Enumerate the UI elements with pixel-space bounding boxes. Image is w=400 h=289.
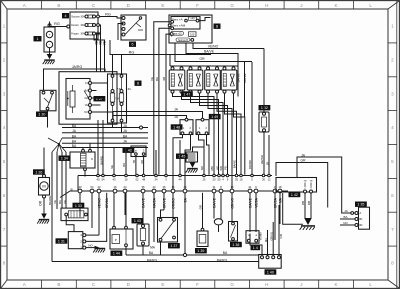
- wire JA feed 149: [113, 112, 203, 119]
- wire 137 down: [160, 242, 162, 255]
- comp 145: [186, 152, 198, 162]
- wire riser 282 to ground: [283, 193, 303, 224]
- svg-text:6: 6: [391, 193, 394, 198]
- svg-text:BA: BA: [122, 163, 126, 167]
- box +a +a: [276, 178, 317, 194]
- svg-text:VE: VE: [63, 200, 67, 204]
- wire ignition pin2 drop: [118, 24, 124, 41]
- svg-text:NO: NO: [88, 243, 93, 247]
- svg-text:BA/RG: BA/RG: [217, 258, 228, 262]
- tag conn 134: [59, 156, 71, 161]
- svg-text:54: 54: [102, 177, 105, 181]
- svg-text:VE: VE: [110, 165, 114, 169]
- tag box 138: [230, 242, 242, 247]
- svg-text:30A: 30A: [81, 33, 86, 36]
- wires conn140 risers: [250, 234, 262, 251]
- ignition switch box: [121, 15, 146, 40]
- svg-text:16: 16: [125, 177, 128, 181]
- svg-text:BA/VE: BA/VE: [233, 160, 237, 168]
- svg-text:BA/VE: BA/VE: [248, 197, 252, 208]
- svg-text:100: 100: [190, 32, 195, 36]
- svg-text:OR/RO: OR/RO: [171, 198, 175, 209]
- svg-text:L: L: [369, 3, 372, 8]
- svg-text:Vers +AM: Vers +AM: [172, 24, 186, 28]
- wire left drop 4: [65, 152, 67, 208]
- svg-text:4: 4: [65, 14, 67, 18]
- svg-text:1 37: 1 37: [170, 244, 177, 248]
- wire fuse aux down: [94, 35, 105, 72]
- svg-text:RG: RG: [129, 50, 135, 54]
- svg-text:1 42: 1 42: [291, 193, 298, 197]
- wire comp133 to 131: [66, 216, 74, 232]
- wire left drop 1b: [51, 152, 53, 262]
- tag connector 140: [265, 269, 277, 274]
- wire long drop x159: [159, 28, 171, 174]
- wire JA/RG top: [44, 69, 106, 90]
- battery B1: [44, 24, 55, 52]
- wire lamp feed bus: [170, 65, 238, 67]
- svg-text:VE/MA: VE/MA: [258, 232, 262, 241]
- wire horizontal BA y147.5: [62, 147, 148, 149]
- wires fusepair bottom stubs: [112, 122, 114, 128]
- wire 145 up: [193, 147, 205, 152]
- svg-text:VE/NO: VE/NO: [208, 45, 219, 49]
- junction circle: [140, 126, 143, 129]
- svg-text:44: 44: [184, 185, 187, 189]
- svg-text:Demarr: Demarr: [71, 24, 79, 27]
- wire motor up: [43, 148, 45, 175]
- svg-text:Serrure B: Serrure B: [178, 39, 188, 42]
- svg-text:8: 8: [216, 25, 218, 29]
- motor 126: [39, 175, 50, 199]
- star junction: [48, 138, 66, 152]
- box 139: [197, 228, 208, 246]
- svg-text:G: G: [230, 3, 234, 8]
- svg-text:50: 50: [218, 177, 221, 181]
- wire extra drop 269: [268, 135, 270, 175]
- svg-text:3: 3: [391, 91, 394, 96]
- svg-text:8: 8: [3, 261, 6, 266]
- wires lamp fan staircase: [173, 93, 245, 190]
- svg-text:20: 20: [213, 177, 216, 181]
- svg-text:DB: DB: [301, 201, 305, 205]
- svg-text:7B: 7B: [132, 160, 136, 164]
- outer box relay127: [59, 72, 117, 125]
- lamp L2: [187, 67, 203, 93]
- svg-text:44: 44: [179, 177, 182, 181]
- svg-text:VE: VE: [103, 41, 107, 45]
- svg-text:6: 6: [132, 43, 134, 47]
- svg-text:DB: DB: [307, 201, 311, 205]
- svg-text:35: 35: [235, 177, 238, 181]
- relay box 148: [180, 118, 193, 134]
- svg-text:BA: BA: [155, 77, 159, 81]
- svg-text:7.5A: 7.5A: [126, 88, 131, 91]
- svg-text:B: B: [57, 282, 60, 287]
- svg-text:PE: PE: [224, 166, 228, 170]
- svg-text:30A: 30A: [81, 24, 86, 27]
- tag motor 126: [33, 169, 45, 174]
- fuse pair box: [108, 74, 127, 123]
- svg-text:B: B: [57, 3, 60, 8]
- wire fuse8 tops: [112, 55, 114, 75]
- svg-text:19: 19: [240, 177, 243, 181]
- conn 134: [70, 149, 95, 170]
- wires lamp top stubs: [173, 65, 234, 68]
- wire 148 down-left: [173, 135, 183, 190]
- wire BA to B1: [340, 218, 356, 220]
- svg-text:OR: OR: [199, 205, 203, 209]
- svg-text:1 47: 1 47: [183, 92, 190, 96]
- wire NO to B2: [340, 224, 356, 226]
- wire BA/RG bottom: [52, 261, 259, 263]
- tag box 14x: [251, 245, 261, 250]
- ellipse lamp: [214, 219, 222, 225]
- svg-text:F: F: [196, 3, 199, 8]
- svg-text:7.5A: 7.5A: [114, 97, 120, 101]
- wire drop x180 from lamps: [179, 140, 181, 175]
- tag relay 148: [171, 124, 183, 129]
- wire 141 to BA: [125, 247, 127, 255]
- svg-text:VE/BA: VE/BA: [254, 197, 258, 208]
- svg-text:5: 5: [3, 159, 6, 164]
- svg-text:1 26: 1 26: [35, 170, 42, 174]
- comp 132 resistor: [259, 112, 269, 132]
- svg-text:1: 1: [37, 37, 39, 41]
- svg-text:6: 6: [3, 193, 6, 198]
- svg-text:30A: 30A: [81, 16, 86, 19]
- tag bus 142 end: [289, 192, 301, 197]
- svg-text:2: 2: [391, 57, 394, 62]
- svg-text:1 40: 1 40: [267, 270, 274, 274]
- svg-text:Secours: Secours: [71, 16, 80, 19]
- wire 142 drops: [135, 155, 137, 174]
- ground comp145: [186, 163, 198, 173]
- tag box 139: [195, 248, 207, 253]
- svg-text:OR/NO: OR/NO: [248, 159, 252, 169]
- svg-text:L: L: [369, 282, 372, 287]
- tag battery 1: [34, 36, 42, 41]
- tag relay 127: [94, 96, 106, 101]
- svg-text:1 45: 1 45: [178, 155, 185, 159]
- svg-text:1 35: 1 35: [357, 203, 364, 207]
- ground bottom left: [93, 249, 105, 253]
- box 138: [229, 222, 238, 242]
- wire 134 tops: [82, 148, 84, 150]
- svg-text:1 44: 1 44: [113, 252, 120, 256]
- svg-text:BA: BA: [343, 215, 347, 219]
- svg-text:OR/VE: OR/VE: [243, 74, 247, 83]
- svg-text:D: D: [91, 157, 93, 161]
- wire 143 down: [142, 245, 144, 255]
- svg-text:GR/VG: GR/VG: [230, 198, 234, 209]
- wire pin3 link: [86, 234, 99, 236]
- svg-text:GR/VG: GR/VG: [270, 232, 274, 241]
- svg-text:F: F: [196, 282, 199, 287]
- svg-text:BA/RG: BA/RG: [147, 258, 158, 262]
- wire 127 pins right: [92, 82, 109, 84]
- tag comp 132: [259, 105, 271, 110]
- wire left drop 3: [61, 152, 63, 208]
- svg-text:7: 7: [391, 227, 394, 232]
- svg-text:JR: JR: [265, 162, 269, 165]
- svg-text:30: 30: [262, 177, 265, 181]
- svg-text:1 34: 1 34: [61, 157, 68, 161]
- svg-text:1 39: 1 39: [197, 249, 204, 253]
- tag connector 8: [214, 24, 221, 29]
- box 141: [110, 226, 133, 249]
- svg-text:40: 40: [79, 185, 82, 189]
- svg-text:NO: NO: [84, 111, 88, 114]
- comp 133 connector: [61, 208, 88, 221]
- lamp L3: [205, 67, 221, 93]
- svg-text:2: 2: [3, 57, 6, 62]
- svg-text:GR/BA: GR/BA: [273, 197, 277, 208]
- wire VE/NO out: [193, 43, 264, 48]
- tag fusebox 8: [135, 81, 142, 86]
- lamp L4: [221, 67, 237, 93]
- svg-text:1: 1: [3, 24, 6, 29]
- wire fuse row2 down: [99, 25, 100, 72]
- svg-text:26: 26: [203, 177, 206, 181]
- svg-text:H: H: [265, 282, 268, 287]
- svg-text:J: J: [300, 282, 302, 287]
- tag conn 142: [123, 148, 135, 153]
- svg-text:BA: BA: [58, 200, 62, 204]
- svg-text:OR: OR: [39, 200, 43, 205]
- wire 132 top feed: [263, 49, 265, 106]
- svg-text:MA: MA: [278, 197, 282, 203]
- wire fuse row3 down: [97, 34, 100, 72]
- svg-text:16: 16: [172, 185, 175, 189]
- svg-text:1 33: 1 33: [75, 204, 82, 208]
- tag comp 135: [355, 202, 367, 207]
- comp 135: [355, 207, 370, 229]
- wire horizontal BA y127.5: [62, 127, 148, 129]
- wire battery bottom to ground: [49, 48, 51, 54]
- svg-text:7: 7: [3, 227, 6, 232]
- wire 149 down-left: [199, 135, 205, 175]
- connector box relays: [168, 15, 212, 43]
- bus upper: [78, 174, 272, 191]
- svg-text:VE: VE: [53, 200, 57, 204]
- wire left drop 2: [56, 152, 58, 209]
- svg-text:40: 40: [97, 177, 100, 181]
- svg-text:4: 4: [3, 125, 6, 130]
- svg-text:VE/NO: VE/NO: [97, 198, 101, 209]
- relay 127: [66, 79, 92, 120]
- svg-text:JA/RG: JA/RG: [72, 65, 83, 69]
- wire lamp feed left end: [169, 55, 171, 67]
- wire OR out: [175, 43, 252, 61]
- wire long drop x153: [154, 22, 171, 175]
- wire NO to ground: [86, 247, 95, 249]
- svg-text:43: 43: [113, 177, 116, 181]
- wire battery to fuse box RG: [49, 22, 51, 24]
- svg-text:MA/BA: MA/BA: [152, 197, 156, 208]
- wires lower bus drops: [80, 193, 282, 255]
- tag comp 133: [73, 203, 85, 208]
- fuse box F4 (3x 30A): [67, 12, 100, 39]
- box 137: [158, 218, 178, 243]
- relay box 149: [196, 118, 209, 134]
- tag relay 149: [209, 114, 221, 119]
- wire motor down to ground: [43, 198, 45, 214]
- svg-text:JA: JA: [344, 209, 348, 213]
- ground motor: [37, 214, 49, 224]
- svg-text:1: 1: [391, 24, 394, 29]
- tag comp 131: [56, 238, 68, 243]
- svg-text:8: 8: [137, 82, 139, 86]
- svg-text:BA/VE: BA/VE: [141, 197, 145, 208]
- connector left pins: [171, 20, 174, 23]
- wire 130 down: [47, 110, 49, 127]
- svg-text:52: 52: [136, 177, 139, 181]
- svg-text:E: E: [161, 3, 164, 8]
- svg-text:M: M: [42, 184, 45, 189]
- svg-text:9D: 9D: [140, 160, 144, 164]
- wires DB drops: [304, 193, 306, 218]
- svg-text:35: 35: [142, 185, 145, 189]
- svg-text:18: 18: [279, 185, 282, 189]
- svg-text:OR: OR: [199, 57, 205, 61]
- wire fuse row1 to ignition: [99, 17, 122, 19]
- comp 131: [68, 232, 86, 250]
- svg-text:+AV: +AV: [190, 18, 195, 21]
- wire BA/VE out: [186, 43, 238, 96]
- lamp L1: [169, 67, 185, 93]
- svg-text:BA/RG: BA/RG: [99, 156, 103, 165]
- svg-text:45: 45: [163, 185, 166, 189]
- wire GR right: [276, 163, 328, 208]
- svg-text:16: 16: [114, 185, 117, 189]
- junction BA: [183, 253, 186, 256]
- svg-text:GR/VE: GR/VE: [162, 197, 166, 208]
- svg-text:21: 21: [249, 185, 252, 189]
- svg-text:12: 12: [268, 177, 271, 181]
- wire long drop x166: [166, 34, 170, 175]
- conn 142: [131, 146, 146, 157]
- svg-text:WR: WR: [219, 166, 223, 171]
- svg-text:+: +: [48, 33, 50, 37]
- arrow NO: [95, 246, 100, 250]
- connector 140: [259, 250, 282, 268]
- wire pin2 link: [86, 193, 107, 242]
- wire fan extra OR/VE: [244, 62, 246, 118]
- svg-text:54: 54: [91, 185, 94, 189]
- wire JA right: [297, 157, 356, 213]
- wire ellipse down: [218, 225, 220, 232]
- svg-text:RG: RG: [105, 13, 111, 17]
- tag ignition 6: [129, 42, 136, 47]
- wire 132 up: [263, 105, 265, 112]
- svg-text:J: J: [300, 3, 302, 8]
- svg-text:5: 5: [391, 159, 394, 164]
- svg-text:34: 34: [155, 177, 158, 181]
- wire horizontal JA y132.8: [62, 132, 148, 134]
- svg-text:4: 4: [391, 125, 394, 130]
- svg-text:1 38: 1 38: [232, 243, 239, 247]
- svg-text:BA/VE: BA/VE: [237, 74, 241, 83]
- wire ignition feed RG long: [110, 40, 211, 55]
- svg-text:48: 48: [142, 177, 145, 181]
- svg-text:44: 44: [153, 185, 156, 189]
- svg-text:43: 43: [98, 185, 101, 189]
- svg-text:NO: NO: [343, 221, 348, 225]
- svg-text:1 31: 1 31: [58, 239, 65, 243]
- svg-text:VE/WR: VE/WR: [260, 155, 264, 164]
- tag box 141: [111, 251, 123, 256]
- svg-text:1 49: 1 49: [211, 115, 218, 119]
- svg-text:P: P: [115, 238, 117, 242]
- svg-text:3: 3: [3, 91, 6, 96]
- svg-text:15: 15: [231, 185, 234, 189]
- svg-text:24: 24: [124, 185, 127, 189]
- bus lower: [60, 185, 288, 197]
- wire 149 down-right: [207, 135, 210, 175]
- wire 148 down-right: [185, 135, 191, 190]
- svg-text:E: E: [161, 282, 164, 287]
- wire 139 up: [202, 193, 204, 229]
- svg-text:G: G: [230, 282, 234, 287]
- svg-text:MA: MA: [264, 238, 268, 242]
- svg-text:1 4: 1 4: [253, 246, 258, 250]
- wire horizontal BA y143.2: [62, 142, 148, 144]
- wire 132 down: [263, 132, 265, 175]
- tag fuse box 4: [62, 13, 69, 18]
- svg-text:RG: RG: [54, 22, 60, 26]
- svg-text:7.5A: 7.5A: [117, 88, 122, 91]
- svg-text:1 48: 1 48: [173, 125, 180, 129]
- svg-text:1 30: 1 30: [38, 113, 45, 117]
- junction JA pin: [351, 212, 354, 215]
- tag lamps 147: [181, 91, 193, 96]
- svg-text:GR: GR: [301, 159, 307, 163]
- svg-text:31: 31: [213, 185, 216, 189]
- svg-text:H: H: [265, 3, 268, 8]
- box 143: [137, 224, 149, 246]
- tag comp 145: [176, 154, 188, 159]
- tag switch 130: [36, 112, 48, 117]
- tag box 143: [132, 218, 144, 223]
- ground right big: [300, 218, 315, 230]
- ground battery: [43, 54, 55, 64]
- svg-text:BA/VE: BA/VE: [212, 197, 216, 208]
- tag box 137: [168, 243, 180, 248]
- svg-text:BA/VE: BA/VE: [204, 50, 215, 54]
- wire BA bottom: [126, 254, 259, 256]
- svg-text:BA/RG: BA/RG: [48, 195, 52, 205]
- switch 130: [40, 90, 56, 111]
- svg-text:9B: 9B: [162, 77, 166, 81]
- wire 141 tops: [113, 193, 115, 227]
- svg-text:8: 8: [391, 261, 394, 266]
- wire JA feed 148: [113, 116, 187, 119]
- wire horizontal BA y138: [62, 137, 148, 139]
- svg-text:1 43: 1 43: [134, 219, 141, 223]
- svg-text:VE: VE: [150, 77, 154, 81]
- svg-text:Feugra: Feugra: [71, 33, 79, 36]
- box 14x: [246, 231, 259, 244]
- wire 134 bottom to bus: [84, 171, 86, 177]
- svg-text:−: −: [48, 43, 50, 47]
- svg-text:VE: VE: [85, 104, 89, 107]
